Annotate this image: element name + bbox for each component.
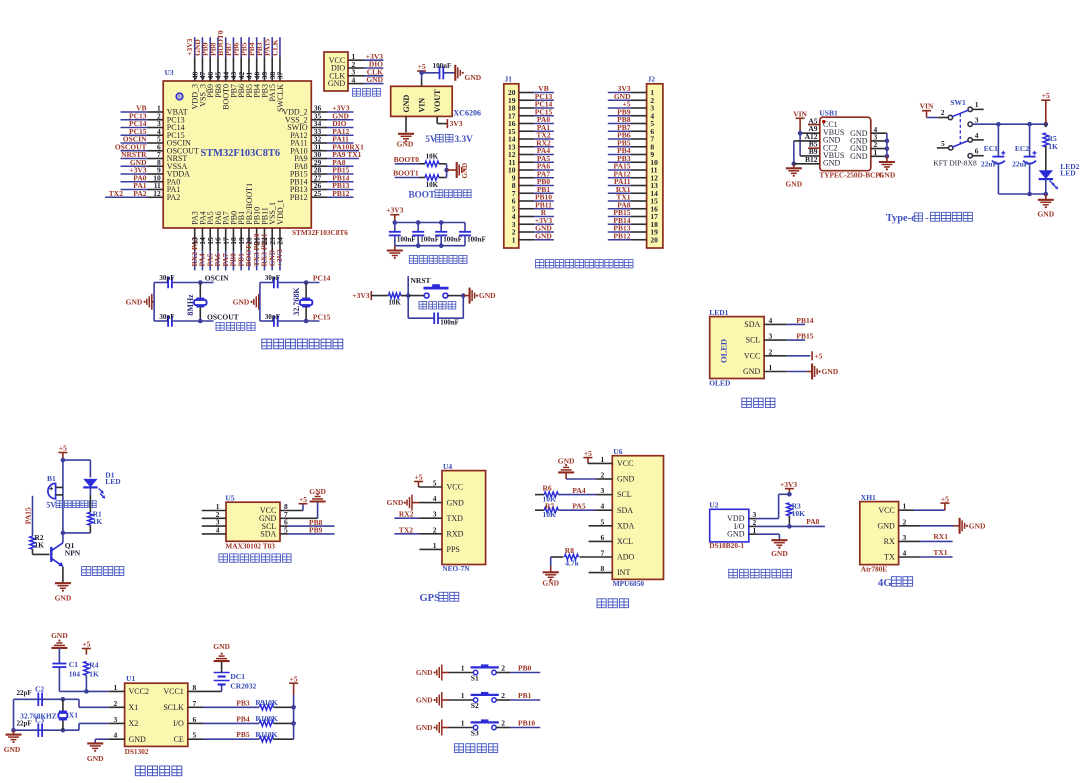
J2 pin 18 wire PB14 [608, 216, 658, 229]
svg-text:NPN: NPN [65, 549, 81, 558]
svg-text:+3V3: +3V3 [275, 249, 284, 266]
svg-text:2: 2 [433, 525, 437, 534]
U3 right pin 30 PA9 [294, 150, 361, 163]
svg-text:PB9: PB9 [309, 526, 323, 535]
svg-text:U3: U3 [165, 68, 174, 77]
svg-text:U5: U5 [225, 494, 234, 503]
svg-text:R8: R8 [565, 546, 574, 555]
svg-text:PB0: PB0 [518, 663, 532, 672]
XC6206 VOUT to 3V3 [437, 116, 463, 128]
caption BOOT setting circuit [409, 190, 472, 200]
svg-text:+5: +5 [290, 674, 298, 683]
J1 pin 9 wire PA7 [512, 169, 554, 182]
power +3V3 reset [352, 291, 388, 300]
svg-text:4: 4 [352, 75, 356, 84]
svg-text:RX: RX [884, 537, 895, 546]
U3 bottom pin 17 PA7 [221, 211, 231, 270]
U3 right pin 27 PB14 [290, 173, 354, 186]
svg-text:GND: GND [877, 521, 895, 530]
wire VIN to SW1 pin2 [927, 117, 949, 119]
U3 bottom pin 13 PA3 [190, 211, 200, 270]
ground right of USB1 [879, 162, 896, 179]
svg-text:2: 2 [501, 691, 505, 700]
svg-text:3: 3 [975, 115, 979, 124]
U3 left pin 7 NRST [121, 150, 188, 163]
svg-text:J1: J1 [505, 75, 513, 84]
svg-text:R100K: R100K [255, 714, 278, 723]
svg-text:PC14: PC14 [313, 274, 331, 283]
J1 pin 14 wire TX2 [508, 131, 554, 144]
power +5 alarm [58, 443, 67, 462]
svg-text:24: 24 [276, 237, 285, 245]
capacitor 30pF bottom-left [154, 312, 239, 326]
U3 left pin 10 PA0 [121, 173, 181, 186]
svg-text:STM32F103C8T6: STM32F103C8T6 [292, 228, 348, 237]
SW1 lever 5-4 [953, 141, 969, 147]
wire SW1 pin3 power rail [972, 122, 1048, 127]
resistor R1 1K [88, 487, 103, 533]
J2 pin 15 wire TX1 [608, 193, 658, 206]
capacitor 100nF at VIN [433, 62, 452, 79]
net label BOOT1 wire [393, 169, 425, 178]
USB1 pin B5 stub [808, 147, 820, 149]
IC U5 MAX30102 heart-rate sensor [225, 494, 280, 551]
svg-text:25: 25 [314, 189, 322, 198]
svg-text:2: 2 [903, 517, 907, 526]
XH1 pin3 wire RX1 [899, 532, 953, 542]
resistor R7 10K [535, 502, 558, 519]
svg-text:GND: GND [366, 75, 383, 84]
J2 pin 19 wire PB13 [608, 224, 658, 237]
J2 pin 11 wire PA15 [608, 162, 658, 175]
svg-text:GND: GND [447, 498, 465, 507]
capacitor C3 22pF [17, 715, 45, 737]
U2 pin1 wire GND [749, 526, 780, 540]
svg-text:OSCIN: OSCIN [205, 274, 229, 283]
wire cap to GND [443, 72, 455, 74]
ground temp [771, 540, 788, 558]
svg-text:1: 1 [433, 541, 437, 550]
J2 pin 17 wire PB15 [608, 208, 658, 221]
wire BOOT0 resistor to junction [439, 164, 447, 170]
svg-text:S2: S2 [471, 701, 479, 710]
svg-text:1: 1 [769, 363, 773, 372]
ground at BOOT junction [447, 162, 469, 179]
caption clock module [135, 766, 182, 776]
U3 right pin 33 PA12 [290, 127, 353, 140]
ground clock left [4, 730, 22, 754]
capacitor 100nF filter 4 [459, 223, 486, 246]
ground R8 [542, 572, 559, 587]
svg-text:20: 20 [650, 235, 658, 244]
svg-text:X1: X1 [129, 703, 139, 712]
svg-text:PB10: PB10 [518, 718, 535, 727]
svg-text:U6: U6 [613, 447, 622, 456]
U3 right pin 26 PB13 [290, 181, 354, 194]
resistor 10K BOOT1 [425, 175, 439, 189]
svg-text:3: 3 [433, 510, 437, 519]
svg-text:S1: S1 [471, 674, 479, 683]
U4 pin1 stub PPS [420, 541, 443, 550]
SW1 pin3 contact [968, 115, 979, 126]
svg-text:MAX30102 T03: MAX30102 T03 [225, 542, 275, 551]
svg-text:1K: 1K [93, 517, 103, 526]
U3 top pin 45 PB8 [208, 37, 223, 98]
U3 right pin 32 PA11 [290, 135, 353, 148]
caption xia-zai-kou [353, 89, 381, 97]
svg-text:4: 4 [769, 316, 773, 325]
svg-text:PA15: PA15 [23, 507, 32, 524]
U3 left pin 5 OSCIN [121, 135, 192, 148]
ground button S3 [416, 720, 449, 736]
ground filter caps [387, 246, 403, 259]
svg-text:PB12: PB12 [613, 231, 630, 240]
svg-text:XCL: XCL [617, 537, 633, 546]
svg-text:1: 1 [461, 663, 465, 672]
OLED pin4 wire PB14 [764, 316, 814, 325]
U3 bottom pin 24 VDD_1 [275, 199, 285, 270]
svg-text:7: 7 [601, 549, 605, 558]
svg-text:+3V3: +3V3 [780, 480, 797, 489]
U3 bottom pin 19 PB1 [236, 211, 246, 270]
SW1 pin4 contact and stub [968, 131, 984, 142]
U3 top pin 40 PB4 [247, 37, 262, 98]
svg-text:LED1: LED1 [709, 308, 728, 317]
svg-text:NEO-7N: NEO-7N [442, 564, 470, 573]
svg-text:STM32F103C8T6: STM32F103C8T6 [200, 148, 280, 159]
svg-text:30pF: 30pF [159, 274, 174, 282]
U3 left pin 8 VSSA [121, 158, 188, 171]
svg-text:U2: U2 [709, 501, 718, 510]
push button S1 [449, 663, 499, 682]
svg-text:SCL: SCL [746, 336, 761, 345]
power VIN at SW1 [920, 101, 934, 117]
U3 bottom pin 21 PB10 [252, 207, 262, 270]
U5 pin6 wire PB8 [280, 518, 335, 527]
push button reset [408, 284, 465, 298]
capacitor 100nF reset [408, 296, 463, 327]
svg-text:GND: GND [126, 298, 143, 307]
J2 pin 13 wire PA11 [608, 177, 658, 190]
resistor R2 1K [30, 533, 44, 554]
J1 pin 11 wire PA5 [508, 154, 553, 167]
svg-text:22pF: 22pF [17, 719, 32, 727]
U3 left pin 1 VBAT [121, 104, 188, 117]
IC U6 MPU6050 gyroscope [612, 447, 663, 588]
svg-text:EC2: EC2 [1015, 144, 1029, 153]
J2 pin 8 wire PB5 [608, 138, 655, 151]
filter caps top rail wire [393, 220, 466, 225]
U1 pin7 wire PB3 R9 [188, 698, 296, 710]
wire collector junction [61, 531, 91, 543]
svg-text:MPU6050: MPU6050 [613, 579, 645, 588]
caption 4G module [878, 577, 913, 590]
svg-text:+5: +5 [1042, 91, 1050, 100]
svg-text:CLK: CLK [270, 39, 279, 55]
ground alarm [55, 583, 72, 602]
wire A12 B12 to ground [792, 141, 820, 168]
power +5 at XC6206 VIN [417, 62, 426, 73]
U3 left pin 2 PC13 [121, 111, 185, 124]
svg-text:INT: INT [617, 568, 630, 577]
capacitor 30pF top-right [260, 274, 331, 289]
U3 bottom pin 20 PB2/BOOT1 [244, 183, 254, 270]
svg-text:PC15: PC15 [313, 312, 331, 321]
resistor R6 10K [535, 483, 558, 503]
svg-text:10K: 10K [543, 510, 557, 519]
svg-text:LED: LED [1060, 169, 1076, 178]
ground above DC1 [213, 642, 230, 661]
power +5 clock pullups [289, 674, 298, 739]
U3 top pin 48 VDD_3 [185, 37, 200, 109]
svg-text:10K: 10K [426, 181, 439, 189]
svg-text:PB14: PB14 [796, 316, 813, 325]
U3 left pin 6 OSCOUT [115, 142, 199, 155]
transistor Q1 NPN [33, 541, 81, 567]
svg-text:VOUT: VOUT [433, 89, 442, 113]
svg-text:SW1: SW1 [950, 98, 966, 107]
svg-text:+5: +5 [418, 62, 426, 71]
wire VIN node [419, 71, 440, 87]
U5 pin5 wire PB9 [280, 526, 335, 535]
svg-text:GND: GND [743, 367, 761, 376]
svg-text:22uF: 22uF [1012, 160, 1029, 169]
ground GND right of cap [455, 65, 481, 82]
push button S3 [449, 718, 499, 737]
caption Type-c power circuit [886, 212, 973, 224]
svg-text:VDD_1: VDD_1 [276, 199, 285, 224]
svg-text:30pF: 30pF [159, 313, 174, 321]
switch SW1 KFT DIP-8X8 [933, 98, 977, 168]
IC U3 STM32F103C8T6 [163, 68, 348, 237]
svg-text:100nF: 100nF [443, 236, 462, 244]
IC U4 NEO-7N GPS [442, 462, 486, 573]
download port pin 3 wire to CLK [348, 67, 383, 76]
caption MCU minimal system [262, 339, 343, 349]
svg-text:XC6206: XC6206 [453, 109, 481, 118]
buzzer B1 5V active [47, 474, 63, 499]
capacitor 100nF filter 3 [435, 223, 462, 246]
svg-text:TXD: TXD [447, 514, 464, 523]
ground button S2 [416, 692, 449, 708]
U3 right pin 29 PA8 [294, 158, 353, 171]
svg-text:104: 104 [69, 670, 81, 679]
svg-text:TX1: TX1 [933, 548, 947, 557]
U1 pin6 wire PB4 R10 [188, 714, 296, 726]
J2 pin 12 wire PA12 [608, 169, 658, 182]
J1 pin 2 wire GND [512, 224, 554, 237]
svg-text:OLED: OLED [709, 378, 731, 387]
ground above C1 [51, 631, 68, 648]
svg-text:PB12: PB12 [332, 189, 349, 198]
svg-text:2: 2 [114, 699, 118, 708]
U3 left pin 9 VDDA [121, 166, 191, 179]
svg-text:2: 2 [501, 718, 505, 727]
svg-text:GND: GND [4, 745, 21, 754]
svg-text:8: 8 [193, 683, 197, 692]
svg-text:6: 6 [193, 715, 197, 724]
svg-text:10K: 10K [792, 509, 806, 518]
IC LED1 OLED display [709, 308, 764, 387]
svg-text:6: 6 [975, 147, 979, 156]
svg-text:GND: GND [397, 139, 414, 148]
svg-text:30pF: 30pF [265, 274, 280, 282]
resistor R4 1K [84, 660, 99, 693]
OLED pin3 wire PB15 [764, 332, 814, 341]
svg-text:22uF: 22uF [981, 160, 998, 169]
svg-text:RX2: RX2 [399, 510, 414, 519]
U4 pin5 wire +5 [414, 473, 442, 488]
USB1 right pins wires to ground rail [871, 125, 889, 162]
J1 pin 5 wire PB11 [512, 200, 554, 213]
LED2 LED [1039, 146, 1080, 194]
svg-text:GND: GND [617, 475, 635, 484]
svg-text:OSCOUT: OSCOUT [207, 312, 239, 321]
U1 pin2 wire X1 [79, 699, 125, 708]
capacitor 30pF top-left [154, 274, 229, 289]
U3 right pin 25 PB12 [290, 189, 354, 202]
svg-text:GND: GND [823, 159, 841, 168]
J1 pin 12 wire PA4 [508, 146, 554, 159]
svg-text:GND: GND [785, 180, 802, 189]
XH1 pin1 wire +5 [899, 494, 950, 510]
U3 right pin 36 VDD_2 [282, 104, 353, 117]
U2 pin3 wire VDD [749, 494, 790, 519]
XH1 pin4 wire TX1 [899, 548, 953, 558]
download port pin 4 wire to GND [348, 75, 384, 84]
U6 pin8 stub INT [589, 564, 613, 573]
U6 pin3 wire PA4 [558, 486, 612, 495]
LED D1 [83, 470, 121, 498]
J1 pin 18 wire PC14 [508, 100, 554, 113]
capacitor 100nF filter 1 [389, 223, 416, 246]
U3 top pin 46 PB9 [201, 37, 216, 98]
svg-text:X2: X2 [129, 719, 139, 728]
wire button S3 to PB10 [496, 718, 540, 727]
svg-text:4: 4 [114, 731, 118, 740]
svg-text:VIN: VIN [920, 101, 934, 110]
J1 pin 10 wire PA6 [508, 162, 554, 175]
J2 pin 7 wire PB6 [608, 131, 655, 144]
svg-text:R4: R4 [89, 660, 98, 669]
svg-text:1: 1 [903, 502, 907, 511]
svg-text:GND: GND [969, 521, 986, 530]
svg-text:+5: +5 [299, 495, 307, 504]
IC U2 DS18B20 temperature [709, 501, 749, 550]
svg-text:RXD: RXD [447, 530, 464, 539]
svg-text:1K: 1K [89, 670, 99, 679]
capacitor EC2 22uF [1012, 124, 1036, 194]
svg-text:-: - [925, 213, 929, 224]
svg-text:RX1: RX1 [933, 532, 948, 541]
J2 pin 20 wire PB12 [608, 231, 658, 244]
U4 pin4 wire GND [387, 494, 442, 511]
svg-text:KFT DIP-8X8: KFT DIP-8X8 [933, 159, 977, 168]
caption crystal circuit [216, 322, 255, 330]
filter caps bottom rail wire [395, 243, 465, 248]
svg-text:J2: J2 [648, 75, 656, 84]
svg-text:100nF: 100nF [397, 236, 416, 244]
XH1 pin2 wire GND [899, 517, 986, 534]
svg-text:100nF: 100nF [420, 236, 439, 244]
caption chip filter capacitors [409, 255, 467, 263]
svg-text:R910K: R910K [255, 698, 278, 707]
svg-text:GND: GND [51, 631, 68, 640]
connector USB1 TYPEC-250D-BCP6 [819, 109, 883, 180]
svg-text:S3: S3 [471, 729, 479, 738]
U6 pin1 wire +5 [583, 449, 612, 464]
svg-text:GND: GND [55, 594, 72, 603]
svg-text:PA2: PA2 [133, 189, 146, 198]
svg-text:VIN: VIN [418, 98, 427, 113]
J1 pin 8 wire PB0 [512, 177, 554, 190]
svg-text:GND: GND [402, 95, 411, 113]
U3 bottom pin 15 PA5 [205, 211, 215, 270]
svg-text:2: 2 [601, 471, 605, 480]
wire R8 to ground [550, 557, 552, 572]
svg-text:U1: U1 [126, 674, 135, 683]
crystal X1 32.768KHZ rails [11, 697, 79, 733]
svg-text:5: 5 [941, 139, 945, 148]
U6 pin6 stub XCL [589, 533, 613, 542]
svg-text:PA2: PA2 [167, 193, 181, 202]
power +5 top right [1041, 91, 1050, 124]
svg-text:GND: GND [465, 73, 482, 82]
U1 pin3 wire X2 [79, 715, 125, 730]
U3 top pin 47 VSS_3 [193, 37, 208, 106]
U3 top pin 41 PB5 [239, 37, 254, 98]
svg-text:PPS: PPS [447, 545, 460, 554]
capacitor EC1 22uF [981, 124, 1005, 194]
svg-text:GND: GND [416, 696, 433, 705]
ground reset right [463, 288, 496, 304]
svg-text:USB1: USB1 [819, 109, 838, 118]
download port pin 2 wire to DIO [348, 60, 383, 69]
SW1 pin5 contact and stub [937, 139, 953, 150]
J1 pin 3 wire +3V3 [512, 216, 554, 229]
wire button S2 to PB1 [496, 691, 540, 700]
J2 pin 3 wire +5 [608, 100, 655, 113]
resistor 10K BOOT0 [425, 152, 439, 166]
svg-text:+5: +5 [59, 443, 67, 452]
svg-text:GND: GND [309, 487, 326, 496]
IC U1 DS1302 [125, 674, 188, 756]
ground button S1 [416, 665, 449, 681]
svg-text:PB5: PB5 [236, 730, 250, 739]
svg-text:GND: GND [771, 549, 788, 558]
U3 top pin 44 BOOT0 [216, 30, 231, 110]
caption gyroscope [597, 599, 629, 608]
wire bottom rail power circuit [998, 192, 1048, 197]
J1 pin 15 wire PA1 [508, 123, 554, 136]
svg-text:Air780E: Air780E [861, 564, 887, 573]
U4 pin2 wire TX2 [394, 525, 442, 534]
push button S2 [449, 691, 499, 710]
svg-text:BOOT1: BOOT1 [393, 169, 419, 178]
U1 pin4 wire GND [95, 731, 124, 744]
svg-text:PA5: PA5 [572, 502, 585, 511]
svg-text:1: 1 [975, 100, 979, 109]
svg-text:5: 5 [284, 526, 288, 535]
caption reset circuit [419, 302, 456, 310]
svg-text:100nF: 100nF [467, 236, 486, 244]
svg-text:32.768KHZ: 32.768KHZ [20, 711, 56, 720]
svg-text:X1: X1 [69, 711, 78, 720]
svg-text:SDA: SDA [617, 506, 633, 515]
capacitor C2 22pF [17, 684, 45, 706]
caption temperature module [729, 569, 792, 578]
SW1 pin1 contact and stub [941, 100, 984, 117]
